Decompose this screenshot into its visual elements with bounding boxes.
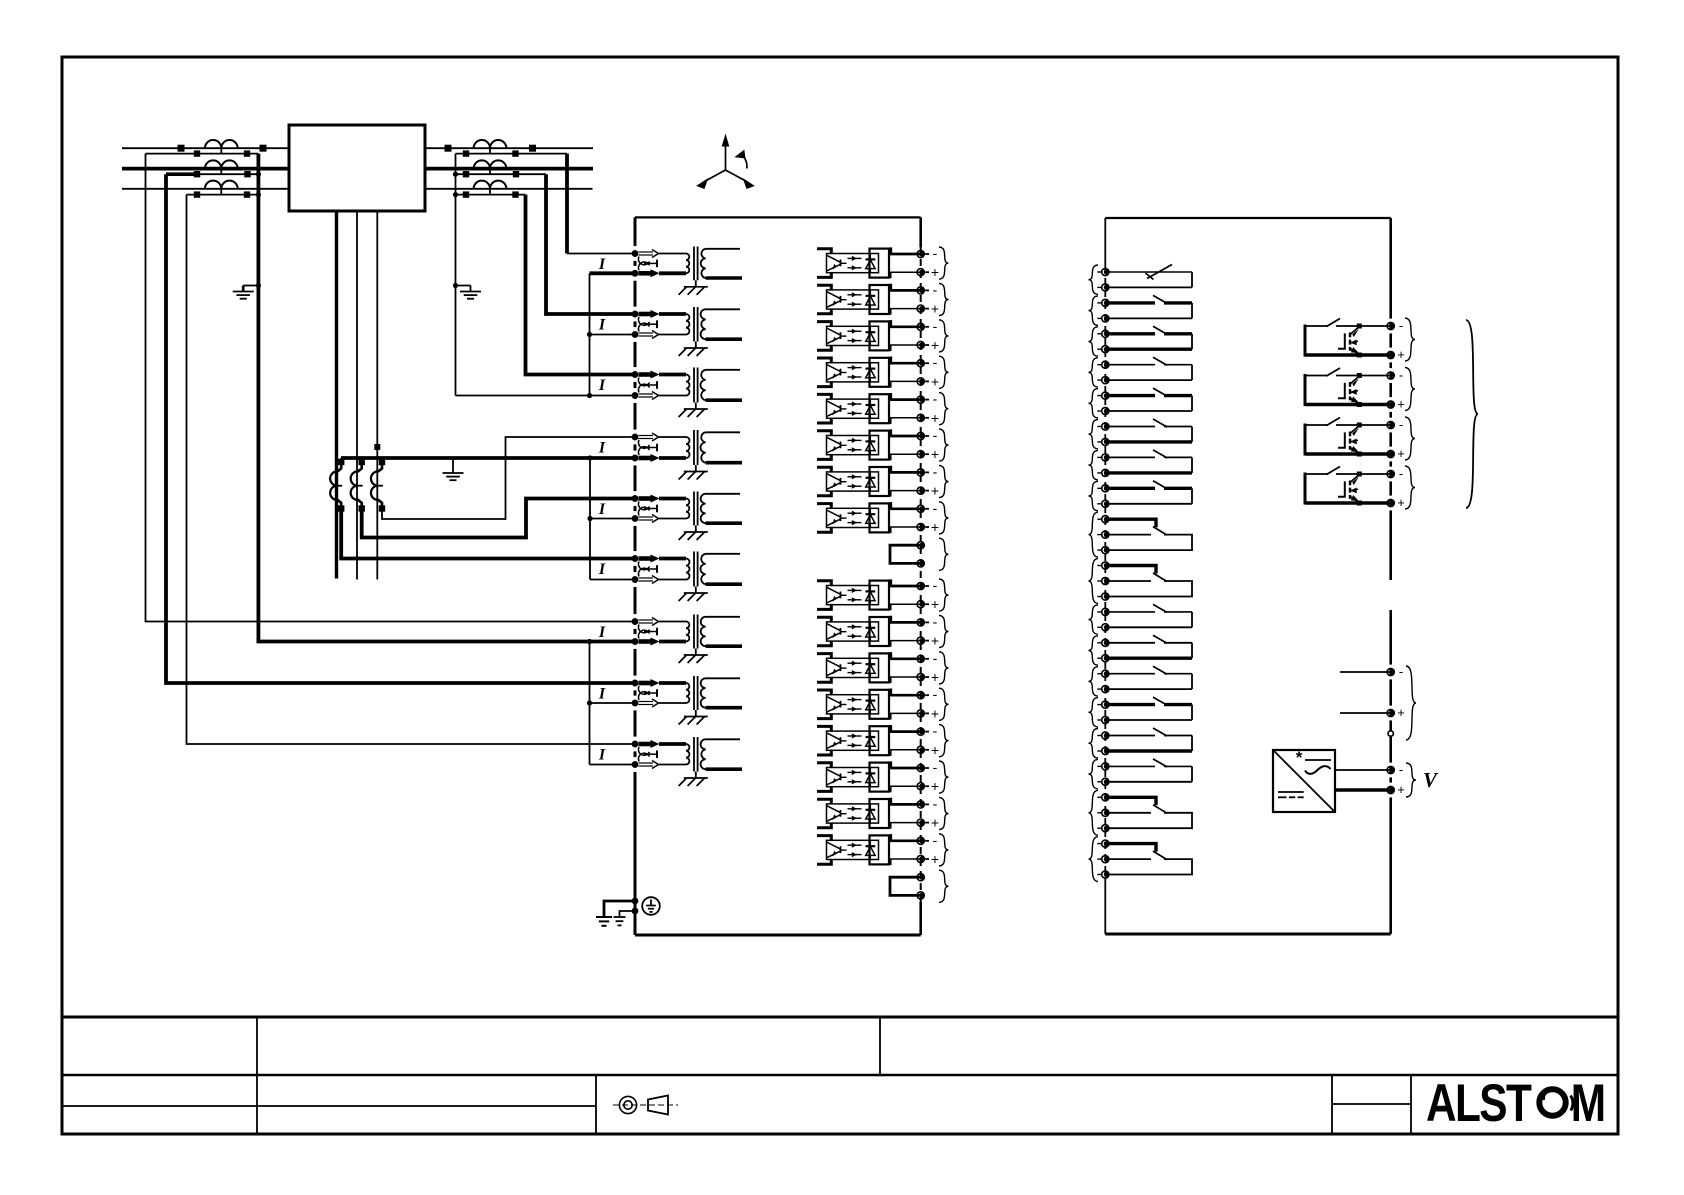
wire CT RA2 to input 2 <box>546 174 635 314</box>
CT RA2 secondary wire <box>456 171 547 177</box>
CT RA3 secondary wire <box>456 191 526 197</box>
svg-text:-: - <box>933 281 938 297</box>
junction on L1 left a <box>178 145 185 152</box>
phase bus L1 right <box>425 147 593 149</box>
CT RA2 <box>474 160 507 174</box>
svg-text:+: + <box>931 519 939 535</box>
svg-text:-: - <box>933 318 938 334</box>
svg-text:I: I <box>598 561 606 578</box>
relay 2 case right edge bottom <box>1389 610 1392 934</box>
common link 1 <box>890 538 949 570</box>
power supply unit <box>1273 748 1335 812</box>
output contact 3 <box>1089 326 1193 356</box>
output contact 13 <box>1089 728 1193 758</box>
phase bus L3 right <box>425 188 593 190</box>
title block divider v5 <box>1410 1075 1412 1134</box>
protective earth symbol <box>642 897 660 915</box>
svg-text:-: - <box>933 245 938 261</box>
opto input 14 <box>817 759 949 794</box>
relay 1 case right edge dashed <box>920 247 922 902</box>
svg-text:-: - <box>933 650 938 666</box>
opto input 5 <box>817 391 949 426</box>
svg-text:+: + <box>1397 705 1405 720</box>
svg-text:V: V <box>1423 768 1439 792</box>
changeover contact 1 <box>1089 512 1193 557</box>
svg-text:+: + <box>931 337 939 353</box>
svg-text:+: + <box>931 373 939 389</box>
opto input 7 <box>817 463 949 498</box>
CT RA1 secondary wire <box>456 150 568 156</box>
title block row divider <box>62 1074 1618 1077</box>
return link group 2 <box>587 458 635 580</box>
CT RA3 <box>474 181 507 195</box>
CT LA2 secondary wire <box>166 171 258 177</box>
svg-text:+: + <box>931 669 939 685</box>
terminal gaps on relay 1 edge <box>632 246 637 772</box>
CT LA3 secondary wire <box>187 191 259 197</box>
relay 1 case right edge top <box>919 217 922 247</box>
relay 2 case left edge bottom <box>1104 881 1106 934</box>
title block mid rule left <box>62 1105 596 1107</box>
relay 2 case left edge top <box>1104 218 1106 266</box>
svg-text:+: + <box>1397 397 1405 412</box>
svg-text:-: - <box>933 577 938 593</box>
junction on L1 left b <box>260 145 267 152</box>
CT MA2 <box>351 462 363 509</box>
svg-text:I: I <box>598 747 606 764</box>
changeover contact 3 <box>1089 790 1193 835</box>
svg-text:-: - <box>1399 466 1403 481</box>
svg-text:+: + <box>1397 446 1405 461</box>
wire CT LA2 to input 8 <box>166 174 635 683</box>
CT MA1 <box>330 462 342 509</box>
current input 1 <box>598 247 742 295</box>
svg-text:I: I <box>598 256 606 273</box>
wire CT RA1 to input 1 <box>567 154 635 254</box>
CT MA1 lower tap wire to input 6 <box>338 505 635 558</box>
svg-text:-: - <box>933 427 938 443</box>
output contact 10 <box>1089 635 1193 665</box>
return link group 3 <box>587 642 635 765</box>
svg-text:-: - <box>1399 762 1403 777</box>
title block top rule <box>62 1016 1618 1019</box>
current input 8 <box>598 676 742 725</box>
svg-text:-: - <box>933 463 938 479</box>
current input 4 <box>598 430 742 480</box>
svg-text:+: + <box>931 483 939 499</box>
current input 3 <box>598 368 742 418</box>
opto input 2 <box>817 281 949 316</box>
opto input 6 <box>817 427 949 462</box>
svg-text:+: + <box>931 633 939 649</box>
svg-text:*: * <box>1296 748 1303 767</box>
ground group 2 <box>443 458 464 480</box>
terminal gaps on relay 2 edge <box>1388 319 1393 798</box>
svg-text:+: + <box>931 815 939 831</box>
svg-text:+: + <box>931 778 939 794</box>
field voltage terminals <box>1335 762 1439 797</box>
transformer T1 box <box>289 125 425 211</box>
common link 2 <box>890 870 949 902</box>
phase bus L2 left <box>122 167 289 171</box>
CT MA3 lower tap wire to input 4 <box>379 437 635 519</box>
output contact 11 <box>1089 666 1193 696</box>
CT RA1 <box>474 140 507 154</box>
phase bus L1 left <box>122 147 289 149</box>
svg-text:I: I <box>598 501 606 518</box>
relay 2 case left edge dashed <box>1104 266 1106 881</box>
return link group 1 <box>587 273 635 395</box>
high-break output 1 <box>1305 318 1415 362</box>
svg-text:+: + <box>1397 347 1405 362</box>
junction on L1 right b <box>529 145 536 152</box>
svg-text:-: - <box>1399 664 1403 679</box>
phase rotation symbol <box>697 136 753 189</box>
svg-text:-: - <box>1399 318 1403 333</box>
output contact 9 <box>1089 604 1193 634</box>
svg-text:-: - <box>933 500 938 516</box>
opto input 11 <box>817 650 949 685</box>
phase bus L2 right <box>425 167 593 171</box>
case earth terminals <box>596 898 638 926</box>
CT LA2 <box>205 160 238 174</box>
svg-text:+: + <box>931 301 939 317</box>
svg-text:+: + <box>931 596 939 612</box>
CT MA2 lower tap wire to input 5 <box>359 499 636 538</box>
changeover contact 2 <box>1089 559 1193 604</box>
title block divider v3 <box>595 1075 597 1134</box>
ground CT RA star <box>453 283 481 299</box>
output contact 12 <box>1089 697 1193 727</box>
svg-text:+: + <box>931 446 939 462</box>
svg-text:+: + <box>931 705 939 721</box>
svg-text:-: - <box>933 354 938 370</box>
high-break group brace <box>1466 320 1478 508</box>
changeover contact 4 <box>1089 837 1193 882</box>
output contact 14 <box>1089 759 1193 789</box>
svg-text:-: - <box>933 795 938 811</box>
output contact 5 <box>1089 388 1193 418</box>
wire CT RA3 to input 3 <box>526 195 636 375</box>
CT LA3 <box>205 181 238 195</box>
return bus group 1 <box>453 154 635 399</box>
relay 1 case right edge bottom <box>919 902 922 935</box>
opto input 1 <box>817 245 949 280</box>
phase bus L3 left <box>122 188 289 190</box>
high-break output 3 <box>1305 417 1415 461</box>
svg-text:M: M <box>1571 1075 1606 1134</box>
svg-text:-: - <box>933 686 938 702</box>
svg-text:I: I <box>598 624 606 641</box>
junction on L1 right a <box>445 145 452 152</box>
transformer lead a <box>335 211 338 579</box>
opto input 9 <box>817 577 949 612</box>
opto input 10 <box>817 613 949 648</box>
high-break output 2 <box>1305 368 1415 412</box>
title block divider v4 <box>1331 1075 1333 1134</box>
wire CT LA3 to input 9 <box>187 195 636 744</box>
junction lead c <box>374 444 380 450</box>
svg-text:-: - <box>933 391 938 407</box>
opto input 16 <box>817 832 949 867</box>
svg-text:+: + <box>1397 782 1405 797</box>
ground CT LA star <box>233 283 261 299</box>
relay 1 case bottom edge <box>635 934 921 937</box>
relay 2 case top edge <box>1105 217 1390 219</box>
svg-text:I: I <box>598 440 606 457</box>
svg-text:-: - <box>933 832 938 848</box>
output contact 6 <box>1089 419 1193 449</box>
svg-text:I: I <box>598 377 606 394</box>
star bus group 2 <box>338 455 635 465</box>
output contact 4 <box>1089 357 1193 387</box>
high-break output 4 <box>1305 466 1415 510</box>
CT LA1 <box>205 140 238 154</box>
auxiliary supply terminals <box>1340 664 1416 740</box>
current input 6 <box>598 552 742 602</box>
output contact 2 <box>1089 295 1193 325</box>
svg-text:I: I <box>598 686 606 703</box>
svg-text:I: I <box>598 317 606 334</box>
opto input 8 <box>817 500 949 535</box>
svg-text:+: + <box>931 851 939 867</box>
relay 2 case bottom edge <box>1105 933 1390 936</box>
svg-text:+: + <box>1397 495 1405 510</box>
title block divider v2 <box>879 1017 881 1075</box>
current input 7 <box>598 615 742 664</box>
CT MA3 <box>371 462 383 509</box>
current input 2 <box>598 307 742 356</box>
svg-text:-: - <box>1399 417 1403 432</box>
relay 1 case top edge <box>635 216 921 218</box>
svg-text:+: + <box>931 410 939 426</box>
relay 2 case right edge top <box>1389 218 1392 580</box>
star bus group 3 <box>256 154 635 645</box>
svg-text:+: + <box>931 742 939 758</box>
relay 1 case left edge <box>634 217 637 935</box>
output contact 7 <box>1089 450 1193 480</box>
opto input 4 <box>817 354 949 389</box>
title block divider v1 <box>256 1017 258 1134</box>
svg-text:-: - <box>933 759 938 775</box>
transformer lead c <box>376 211 378 580</box>
opto input 13 <box>817 723 949 758</box>
svg-text:-: - <box>1399 368 1403 383</box>
projection symbol <box>613 1096 678 1115</box>
svg-text:-: - <box>933 723 938 739</box>
CT LA1 secondary wire <box>146 150 259 156</box>
transformer lead b <box>356 211 358 580</box>
ALSTOM logo <box>1426 1075 1606 1134</box>
opto input 15 <box>817 795 949 830</box>
output contact 1 (NC) <box>1089 265 1193 295</box>
svg-text:ALST: ALST <box>1426 1075 1532 1134</box>
opto input 12 <box>817 686 949 721</box>
svg-text:-: - <box>933 613 938 629</box>
opto input 3 <box>817 318 949 353</box>
output contact 8 <box>1089 481 1193 511</box>
svg-text:+: + <box>931 264 939 280</box>
title block mid rule small <box>1332 1103 1411 1105</box>
current input 9 <box>598 737 742 786</box>
current input 5 <box>598 492 742 541</box>
wire CT LA1 return to input 7 <box>146 154 636 622</box>
